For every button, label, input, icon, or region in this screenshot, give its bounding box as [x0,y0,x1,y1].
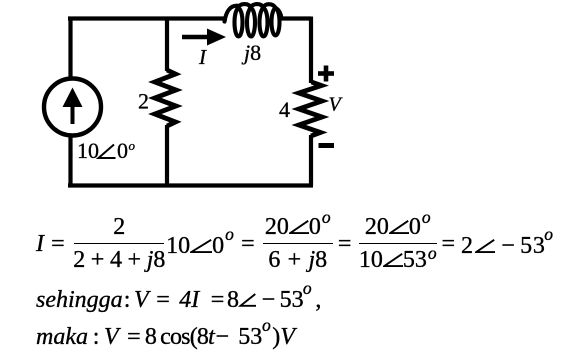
svg-text:4: 4 [279,97,290,122]
wire left vertical lower [68,136,72,188]
svg-text:0: 0 [117,138,128,163]
svg-text:o: o [129,138,136,153]
svg-text:2: 2 [138,89,149,114]
math line 3 [36,324,295,351]
minus sign polarity [319,143,335,148]
svg-text:10: 10 [77,138,99,163]
plus sign polarity [318,66,334,82]
resistor R 4ohm zigzag [299,82,322,136]
wire bottom horizontal [68,183,313,187]
svg-text:I: I [198,45,207,69]
current source I1 arrow [63,88,83,125]
wire right vertical upper [309,17,313,84]
wire middle vertical upper [165,19,169,72]
math line 2 [36,287,321,314]
resistor R 2ohm zigzag [155,70,176,126]
svg-text:j8: j8 [241,40,261,65]
wire top-right (inductor to right corner) [281,16,311,20]
wire middle vertical lower [165,125,169,186]
label 10angle0 of source [77,138,136,163]
wire left vertical upper [68,17,72,79]
wire right vertical lower [309,135,313,186]
svg-text:V: V [329,94,344,116]
current source I1 circle [44,79,101,136]
current arrow I [182,29,226,46]
inductor j8 coil [225,4,282,36]
wire top-left horizontal (source to inductor) [68,16,227,20]
math line 1 [37,214,554,274]
